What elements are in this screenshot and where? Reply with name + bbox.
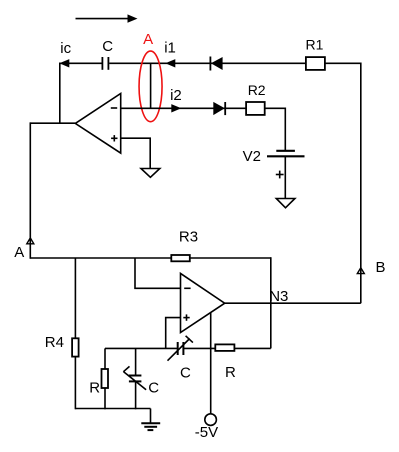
ground at U1 plus [141, 169, 160, 178]
svg-text:C: C [102, 38, 113, 55]
svg-text:R2: R2 [248, 82, 266, 98]
wire left vertical [29, 122, 31, 258]
svg-text:R: R [89, 379, 100, 396]
diode D2 [213, 102, 225, 115]
variable capacitor C feedback [168, 336, 193, 361]
battery V2 [267, 151, 305, 157]
resistor R left [102, 369, 109, 388]
direction arrow [76, 14, 138, 22]
wire R2 to battery [284, 108, 286, 151]
capacitor C [102, 57, 108, 70]
wire U1 output [30, 122, 75, 124]
svg-text:ic: ic [60, 40, 71, 57]
current arrow i2 [171, 104, 181, 112]
wire feedback vertical left [59, 63, 61, 125]
resistor R3 [171, 255, 190, 261]
wire feedback right vertical [270, 257, 272, 348]
wire to R4 [74, 258, 76, 339]
resistor R4 [72, 338, 79, 356]
wire top horizontal [60, 62, 102, 64]
wire R4 down [74, 357, 76, 410]
variable capacitor C2 [123, 348, 146, 409]
svg-text:-5V: -5V [195, 424, 218, 441]
svg-text:R: R [225, 364, 236, 381]
resistor R feedback [215, 344, 234, 351]
current arrow ic [59, 59, 69, 67]
supply -5V circle [205, 414, 217, 426]
wire node branch vertical [150, 63, 152, 108]
ground under battery [276, 199, 295, 208]
wire main row [30, 257, 270, 259]
svg-text:A: A [143, 31, 153, 48]
svg-text:i1: i1 [164, 39, 176, 56]
diode D1 [210, 57, 222, 71]
wire battery to ground [284, 156, 286, 198]
svg-text:R1: R1 [306, 37, 324, 53]
wire U2 minus branch [135, 258, 181, 288]
supply -5V wire [210, 313, 212, 414]
svg-text:i2: i2 [170, 87, 182, 104]
svg-text:N3: N3 [269, 288, 288, 305]
node B arrow [357, 268, 364, 274]
ground IEEE bottom [141, 409, 160, 431]
wire right vertical [360, 63, 362, 304]
svg-text:C: C [148, 379, 159, 396]
svg-text:V2: V2 [243, 148, 261, 165]
svg-text:R4: R4 [45, 334, 64, 351]
wire U2 output [225, 302, 361, 304]
wire i2 row [121, 107, 286, 109]
svg-text:B: B [376, 259, 386, 276]
wire bottom row [75, 408, 150, 410]
op-amp U1 [75, 94, 120, 154]
label plus [276, 171, 284, 179]
current arrow i1 [165, 59, 175, 67]
svg-text:A: A [14, 244, 24, 261]
wire U2 plus input [166, 318, 181, 349]
wire R left vertical bottom [104, 388, 106, 409]
svg-text:C: C [180, 364, 191, 381]
wire R left vertical top [104, 348, 106, 369]
wire feedback row [105, 347, 177, 349]
node A highlight ellipse [139, 51, 162, 122]
resistor R2 [246, 102, 265, 115]
wire U1 plus input [121, 138, 151, 168]
svg-text:R3: R3 [179, 228, 198, 245]
node A arrow [27, 238, 34, 244]
op-amp U2 [181, 273, 225, 332]
resistor R1 [306, 57, 325, 70]
